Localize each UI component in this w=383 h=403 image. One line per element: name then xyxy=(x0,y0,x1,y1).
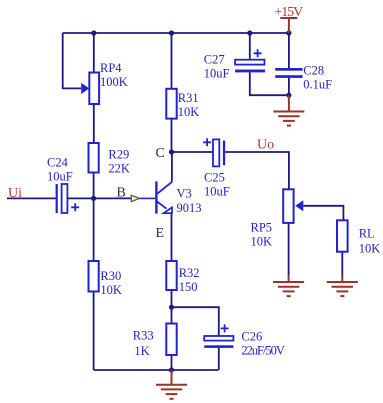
potentiometer RP4 xyxy=(81,73,99,105)
wire C28 top stub xyxy=(288,33,290,68)
node junction dot top RP4 xyxy=(91,30,96,35)
wire C26 bottom to bottom rail xyxy=(218,348,220,370)
svg-text:V3: V3 xyxy=(177,187,192,201)
svg-text:9013: 9013 xyxy=(177,201,202,215)
wire C27 top stub xyxy=(249,33,251,60)
wire R33 bottom to bottom rail xyxy=(171,355,173,370)
svg-text:10K: 10K xyxy=(100,283,122,297)
wire node C to C25 xyxy=(172,151,214,153)
ground below C28 xyxy=(273,95,304,125)
svg-text:10K: 10K xyxy=(359,242,381,256)
svg-text:RL: RL xyxy=(359,227,375,241)
node junction dot top C27 xyxy=(247,30,252,35)
svg-text:R31: R31 xyxy=(178,91,199,105)
wire R32 bottom to emitter junction xyxy=(171,290,173,307)
svg-text:1K: 1K xyxy=(134,344,149,358)
wire top rail xyxy=(63,32,289,34)
svg-text:RP4: RP4 xyxy=(100,61,122,75)
svg-text:C26: C26 xyxy=(241,330,262,344)
svg-text:22K: 22K xyxy=(108,162,130,176)
wire R31 bottom to node C xyxy=(171,119,173,152)
svg-text:C27: C27 xyxy=(204,53,225,67)
node junction dot bottom rail ground xyxy=(169,367,174,372)
svg-text:B: B xyxy=(117,186,126,201)
svg-text:+15V: +15V xyxy=(274,5,303,20)
node junction dot collector C xyxy=(169,149,174,154)
capacitor C28 xyxy=(275,68,302,78)
transistor V3 xyxy=(156,181,172,213)
wire R29 bottom to base junction xyxy=(93,173,95,199)
wire C25 to Uo corner down to RP5 xyxy=(225,152,289,189)
node junction dot top R31 xyxy=(169,30,174,35)
svg-text:10K: 10K xyxy=(251,235,273,249)
wire emitter junction down to R33 xyxy=(171,307,173,323)
svg-text:100K: 100K xyxy=(100,75,128,89)
ground bottom center xyxy=(156,370,187,399)
port arrow input to base xyxy=(131,195,139,201)
resistor R31 xyxy=(166,89,176,119)
capacitor C26 xyxy=(204,324,233,348)
wire RP5 wiper to RL top xyxy=(303,206,343,221)
svg-text:E: E xyxy=(156,226,165,241)
svg-text:R33: R33 xyxy=(133,329,154,343)
svg-text:150: 150 xyxy=(179,280,198,294)
svg-text:C: C xyxy=(156,146,165,161)
svg-text:10uF: 10uF xyxy=(204,67,230,81)
wire C28 bottom to ground junction xyxy=(288,78,290,95)
node junction dot top +15V xyxy=(286,30,291,35)
svg-text:10uF: 10uF xyxy=(204,185,230,199)
svg-text:10uF: 10uF xyxy=(47,170,73,184)
wire RP4 bottom to R29 top xyxy=(93,104,95,143)
wire emitter junction to C26 xyxy=(172,307,219,336)
svg-text:10K: 10K xyxy=(178,105,200,119)
svg-text:RP5: RP5 xyxy=(251,221,273,235)
wire base junction to port arrow xyxy=(94,197,132,199)
ground below RP5 xyxy=(273,275,304,296)
svg-text:C24: C24 xyxy=(47,156,69,170)
wire Ui input to C24 xyxy=(7,197,56,199)
wire R30 bottom to bottom rail xyxy=(93,292,95,371)
resistor RL xyxy=(337,220,348,251)
wire RP4 top stub xyxy=(93,33,95,73)
wire C27 bottom to ground junction xyxy=(250,72,289,95)
resistor R29 xyxy=(89,143,99,173)
wire top rail to R31 xyxy=(171,33,173,89)
potentiometer RP5 xyxy=(283,189,303,223)
wire node C down to collector xyxy=(171,152,173,182)
capacitor C24 xyxy=(56,184,80,213)
wire left rail to RP4 wiper xyxy=(63,33,81,88)
wire base junction down to R30 xyxy=(93,198,95,261)
svg-text:R30: R30 xyxy=(100,269,121,283)
svg-text:C28: C28 xyxy=(303,64,324,78)
svg-text:R32: R32 xyxy=(179,266,200,280)
node junction dot emitter R33 C26 xyxy=(169,305,174,310)
capacitor C25 xyxy=(203,138,225,166)
svg-text:C25: C25 xyxy=(204,171,225,185)
svg-text:Ui: Ui xyxy=(8,186,22,201)
wire emitter down to R32 xyxy=(171,214,173,262)
resistor R32 xyxy=(166,261,176,290)
resistor R33 xyxy=(166,324,176,356)
node junction dot base B xyxy=(91,196,96,201)
wire RL bottom to ground xyxy=(341,252,343,277)
power +15V symbol xyxy=(280,18,297,33)
wire bottom rail xyxy=(94,369,219,371)
ground below RL xyxy=(327,275,358,296)
svg-text:Uo: Uo xyxy=(257,138,274,153)
capacitor C27 xyxy=(235,49,265,72)
node junction dot C27 C28 ground xyxy=(286,93,291,98)
wire RP5 bottom to ground xyxy=(288,223,290,277)
svg-text:R29: R29 xyxy=(108,148,129,162)
svg-text:0.1uF: 0.1uF xyxy=(303,78,332,92)
wire port arrow to transistor base xyxy=(140,197,156,199)
wire C24 to base junction xyxy=(67,197,93,199)
resistor R30 xyxy=(89,261,99,292)
svg-text:22uF/50V: 22uF/50V xyxy=(241,344,285,358)
